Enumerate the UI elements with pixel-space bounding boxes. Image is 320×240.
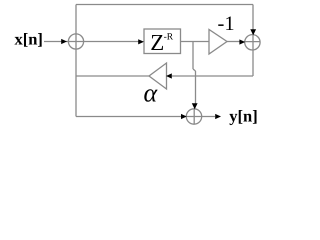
- wire through adder U1 horizontal: [66, 41, 139, 43]
- svg-text:-1: -1: [218, 13, 235, 35]
- wire tap vertical lower segment into adder U2: [195, 71, 197, 104]
- wire feedback horizontal from U3 to amp A2: [172, 75, 253, 77]
- delay block Z^-R rect: [144, 29, 181, 54]
- arrowhead output: [215, 114, 221, 119]
- wire amp A1 to adder U3: [227, 41, 240, 43]
- wire top-left vertical: [75, 5, 77, 35]
- arrowhead into adder U3 left: [239, 39, 245, 44]
- arrowhead into adder U3 top: [250, 29, 256, 35]
- amp A2 triangle (alpha): [149, 63, 167, 89]
- amp A1 triangle (-1): [209, 30, 227, 55]
- adder U2 circle: [186, 109, 201, 124]
- svg-text:y[n]: y[n]: [229, 107, 257, 126]
- wire top-right vertical into U3: [252, 5, 254, 77]
- arrowhead into adder U1: [61, 39, 67, 44]
- wire feedback from amp A2 to left vertical: [76, 75, 149, 77]
- wire tap vertical upper segment: [192, 42, 194, 70]
- wire horizontal through adder U3: [244, 41, 260, 43]
- wire tap jog crossover: [193, 69, 196, 71]
- wire bottom rail into adder U2: [76, 116, 181, 118]
- arrowhead into amp A2: [166, 73, 172, 78]
- arrowhead into delay block: [138, 39, 144, 44]
- arrowhead into adder U2 top: [192, 103, 198, 109]
- svg-text:x[n]: x[n]: [15, 30, 43, 49]
- adder U3 circle: [245, 35, 260, 50]
- svg-text:Z: Z: [150, 30, 164, 55]
- wire adder U1 vertical down to bottom rail: [75, 34, 77, 117]
- wire Z box to amp A1, with tap node: [181, 41, 210, 43]
- arrowhead into adder U2 left: [181, 114, 187, 119]
- wire through adder U2 to output: [187, 116, 216, 118]
- adder U1 circle: [68, 34, 83, 49]
- svg-text:-R: -R: [164, 33, 174, 43]
- wire top rail: [76, 4, 253, 6]
- wire input x[n] to adder U1: [44, 41, 62, 43]
- wire vertical through adder U2: [193, 109, 195, 124]
- svg-text:α: α: [144, 78, 159, 107]
